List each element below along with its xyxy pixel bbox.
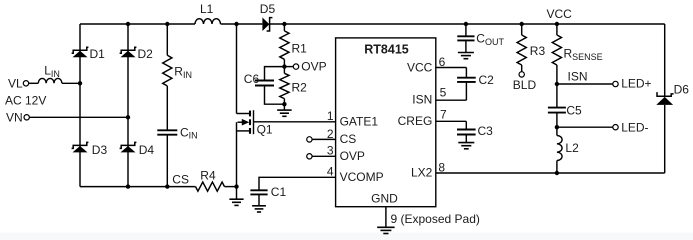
svg-text:VCC: VCC xyxy=(547,7,573,21)
inductor LIN xyxy=(38,78,62,83)
svg-text:Q1: Q1 xyxy=(257,122,273,136)
pin 3 terminal and wire xyxy=(307,154,312,159)
capacitor C5 xyxy=(556,84,558,108)
wire OVP tap xyxy=(284,66,293,68)
svg-text:CS: CS xyxy=(172,172,189,186)
inductor L1 xyxy=(195,19,221,24)
svg-text:C3: C3 xyxy=(478,124,494,138)
resistor RSENSE xyxy=(556,24,558,35)
svg-text:R1: R1 xyxy=(292,41,308,55)
svg-text:D4: D4 xyxy=(139,143,155,157)
transistor Q1 N-MOSFET xyxy=(236,24,238,114)
svg-text:C2: C2 xyxy=(479,73,495,87)
svg-text:VN: VN xyxy=(6,110,23,124)
svg-text:7: 7 xyxy=(440,108,447,122)
wire bottom rail / CS net xyxy=(80,186,196,188)
svg-text:5: 5 xyxy=(440,85,447,99)
svg-text:OVP: OVP xyxy=(340,149,365,163)
node junction top rail at RIN column xyxy=(165,22,169,26)
ground below C1 xyxy=(252,205,266,207)
svg-text:AC 12V: AC 12V xyxy=(5,93,46,107)
node junction top rail at D2 column xyxy=(126,22,130,26)
svg-text:C5: C5 xyxy=(566,103,582,117)
node junction top rail after D5 / R1 xyxy=(282,22,286,26)
svg-text:BLD: BLD xyxy=(513,78,537,92)
svg-text:ISN: ISN xyxy=(412,93,432,107)
node LED- junction xyxy=(555,125,559,129)
capacitor C1 xyxy=(259,177,336,190)
diode D3 xyxy=(72,142,89,148)
svg-text:ISN: ISN xyxy=(568,69,588,83)
resistor R1 xyxy=(283,24,285,31)
node junction top rail at COUT xyxy=(464,22,468,26)
wire bridge column D2/D4 (x=128) xyxy=(127,24,129,187)
svg-text:4: 4 xyxy=(327,165,334,179)
pin 5 wire from C2 xyxy=(465,82,467,100)
svg-text:L2: L2 xyxy=(565,141,579,155)
svg-text:D6: D6 xyxy=(674,83,690,97)
node Q1 source / R4 junction xyxy=(234,184,238,188)
wire ISN to LED+ xyxy=(557,83,613,85)
pin 9 exposed pad stem xyxy=(385,207,387,227)
wire VN to bridge xyxy=(30,116,129,118)
wire CIN bottom lead xyxy=(166,135,168,187)
svg-text:VL: VL xyxy=(8,76,23,90)
svg-text:L1: L1 xyxy=(200,2,214,16)
wire RIN/CIN column top lead xyxy=(166,24,168,55)
svg-text:6: 6 xyxy=(439,55,446,69)
svg-text:LX2: LX2 xyxy=(411,166,433,180)
terminal OVP xyxy=(293,64,298,69)
capacitor COUT xyxy=(465,24,467,36)
svg-text:3: 3 xyxy=(327,144,334,158)
wire VL to LIN xyxy=(29,82,39,84)
svg-text:D5: D5 xyxy=(260,2,276,16)
capacitor CIN xyxy=(157,129,177,131)
capacitor C3 xyxy=(457,129,476,131)
ground below COUT xyxy=(458,52,474,54)
diode D1 xyxy=(72,47,89,53)
wire top rail xyxy=(80,23,195,25)
inductor L2 xyxy=(556,127,558,135)
node R2/C6 bottom junction xyxy=(282,102,286,106)
node junction bottom rail at CIN column xyxy=(165,184,169,188)
svg-text:LED-: LED- xyxy=(621,121,648,135)
svg-text:D3: D3 xyxy=(92,143,108,157)
resistor R3 xyxy=(521,24,523,35)
svg-text:VCC: VCC xyxy=(407,60,433,74)
svg-text:C1: C1 xyxy=(271,185,287,199)
svg-text:GND: GND xyxy=(371,192,398,206)
wire right column lower (D6 to LX2) xyxy=(664,105,666,173)
node VN junction at D2 column xyxy=(126,115,130,119)
svg-text:LED+: LED+ xyxy=(621,77,651,91)
diode D2 xyxy=(120,47,137,53)
wire to LED- xyxy=(557,126,613,128)
node ISN junction xyxy=(555,82,559,86)
svg-text:9 (Exposed Pad): 9 (Exposed Pad) xyxy=(391,212,480,226)
svg-text:2: 2 xyxy=(327,127,334,141)
ground exposed pad xyxy=(377,226,394,228)
svg-text:R3: R3 xyxy=(530,44,546,58)
svg-text:RT8415: RT8415 xyxy=(364,43,409,57)
wire right column upper (VCC to D6) xyxy=(664,24,666,96)
svg-text:CREG: CREG xyxy=(398,114,433,128)
pin 7 wire to C3 xyxy=(436,120,467,122)
diode D6 schottky xyxy=(657,92,674,96)
svg-text:D2: D2 xyxy=(138,47,154,61)
terminal LED+ xyxy=(613,81,618,86)
wire RIN to CIN lead xyxy=(166,86,168,130)
wire left bridge column D1/D3 (x=80) xyxy=(79,24,81,187)
wire LIN to bridge xyxy=(62,82,80,84)
svg-text:1: 1 xyxy=(327,109,334,123)
op-amp U1 RT8415 IC body xyxy=(336,38,436,207)
svg-text:C6: C6 xyxy=(244,72,260,86)
wire gate to pin 1 xyxy=(254,121,336,123)
svg-text:D1: D1 xyxy=(90,47,106,61)
resistor R4 xyxy=(196,182,225,191)
node junction top rail at R3 xyxy=(520,22,524,26)
ground at Q1 source xyxy=(236,187,238,200)
resistor RIN xyxy=(163,55,172,86)
svg-text:GATE1: GATE1 xyxy=(340,115,379,129)
node OVP junction xyxy=(282,64,286,68)
svg-text:CS: CS xyxy=(340,132,357,146)
capacitor C6 xyxy=(265,67,285,81)
terminal BLD xyxy=(519,72,524,77)
resistor R2 xyxy=(283,67,285,74)
svg-text:R4: R4 xyxy=(200,168,216,182)
ground below C3 xyxy=(465,135,467,143)
node junction top rail at RSENSE xyxy=(555,22,559,26)
diode D4 xyxy=(120,142,137,148)
pin 6 wire to C2 xyxy=(436,67,467,69)
terminal VN xyxy=(24,115,29,120)
ground below R2 xyxy=(283,104,285,110)
svg-text:VCOMP: VCOMP xyxy=(340,170,384,184)
svg-text:R2: R2 xyxy=(292,81,308,95)
svg-text:OVP: OVP xyxy=(301,60,326,74)
terminal VL xyxy=(23,81,28,86)
capacitor C2 xyxy=(457,77,476,79)
node L2 / LX2 junction xyxy=(555,171,559,175)
node junction bottom rail at D4 column xyxy=(126,184,130,188)
terminal LED- xyxy=(613,125,618,130)
diode D5 schottky xyxy=(262,18,269,32)
svg-text:8: 8 xyxy=(438,160,445,174)
pin 2 terminal and wire xyxy=(307,137,312,142)
node junction top rail at Q1 drain xyxy=(234,22,238,26)
pin 8 wire LX2 rail xyxy=(436,172,665,174)
node VL junction at D1 column xyxy=(78,81,82,85)
